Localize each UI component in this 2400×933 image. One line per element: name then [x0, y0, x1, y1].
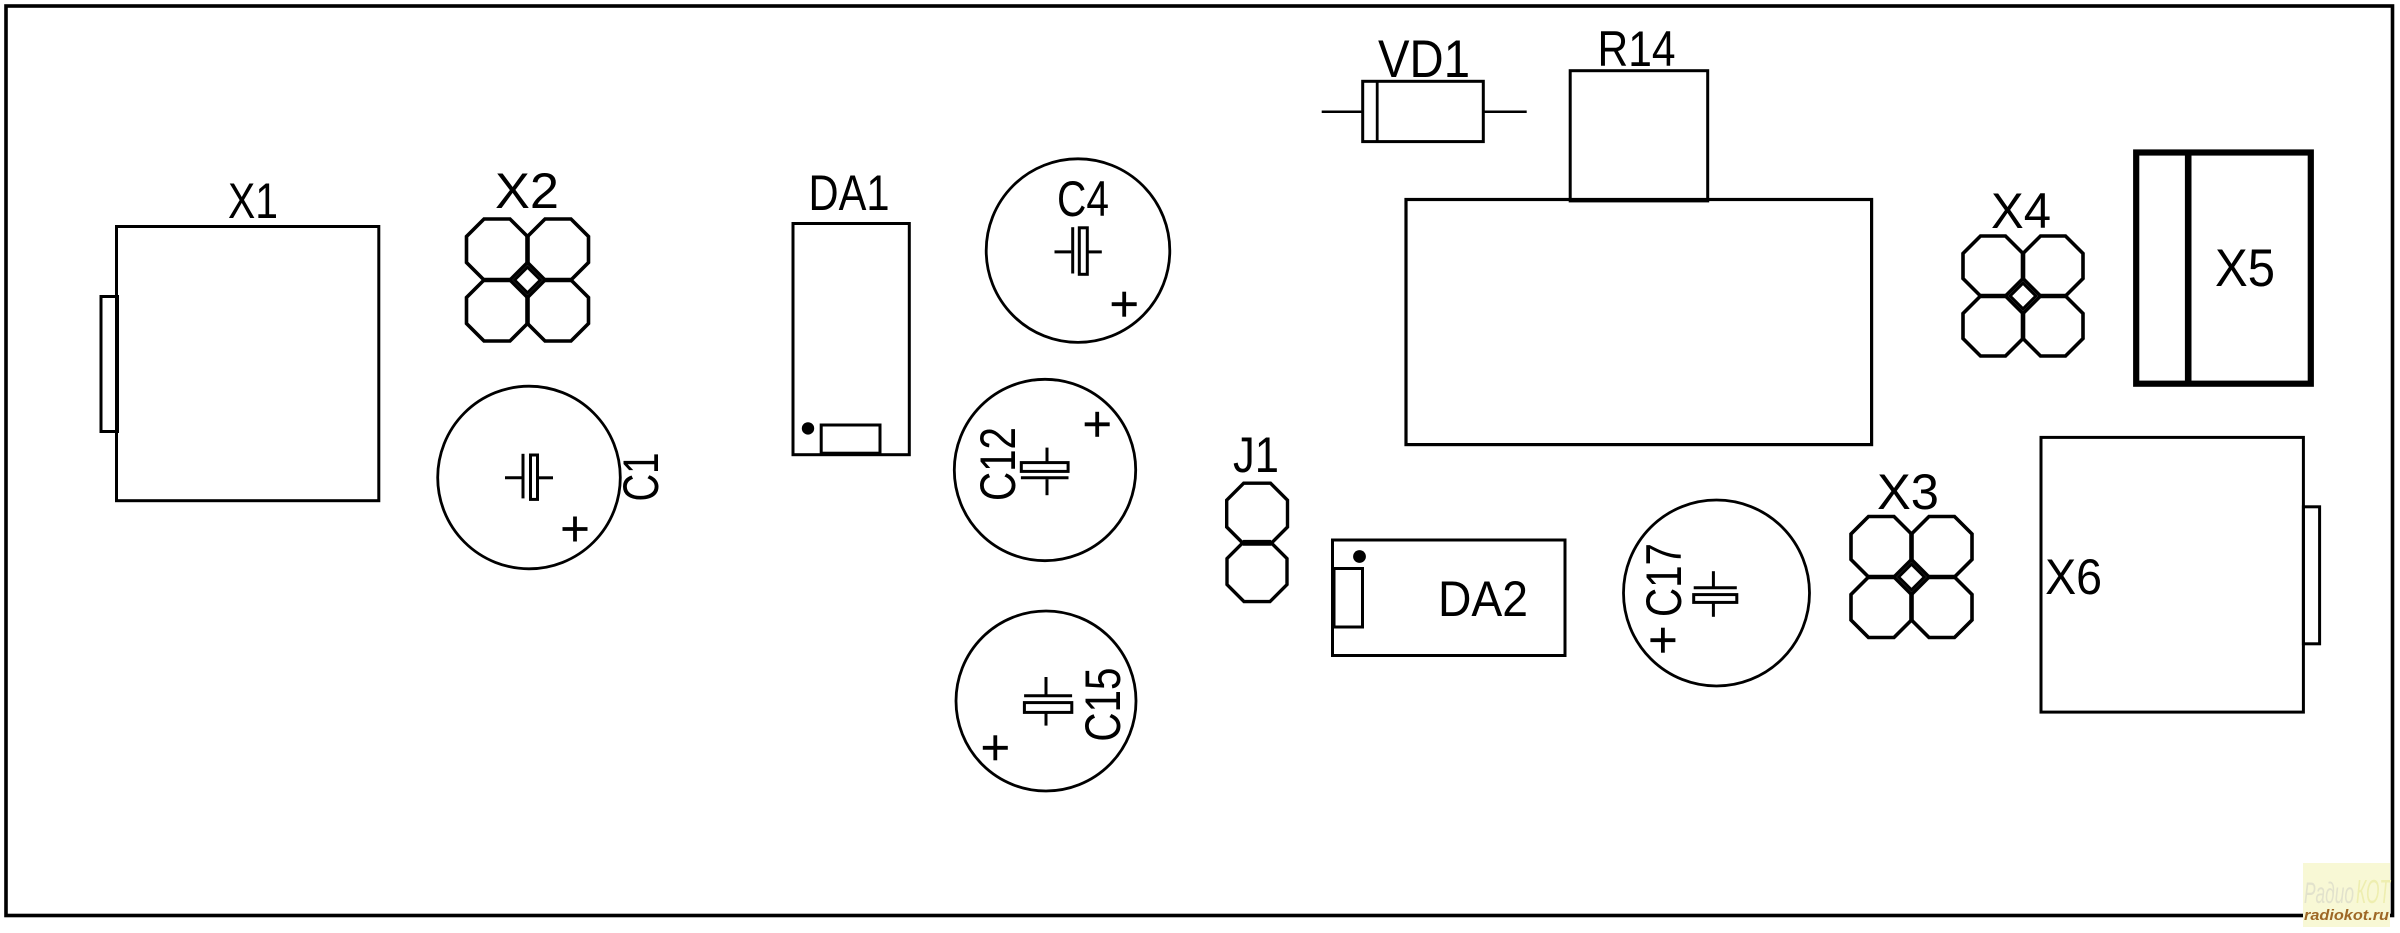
svg-text:C1: C1 [613, 453, 669, 502]
svg-text:VD1: VD1 [1378, 30, 1470, 89]
svg-text:J1: J1 [1233, 427, 1279, 483]
svg-text:X4: X4 [1991, 183, 2051, 239]
relay body [1406, 200, 1872, 445]
capacitor C15 body [956, 611, 1136, 791]
svg-text:DA1: DA1 [809, 165, 890, 221]
capacitor C12 symbol [1021, 448, 1069, 496]
pad cluster X3 shared edges [1869, 534, 1955, 620]
pad cluster X4 [1963, 236, 2083, 356]
connector X1 body [117, 227, 379, 501]
capacitor C1 plus mark [563, 517, 588, 542]
capacitor C4 body [986, 159, 1170, 343]
capacitor C15 symbol [1024, 677, 1072, 726]
pad cluster X4 shared edges [1981, 254, 2066, 339]
capacitor C15 plus mark [983, 735, 1008, 760]
pad cluster X2 center diamond [513, 265, 543, 295]
svg-text:C17: C17 [1636, 543, 1692, 617]
connector X1 side tab [101, 297, 118, 432]
svg-text:X1: X1 [228, 173, 278, 229]
pad cluster X4 center diamond [2008, 281, 2038, 311]
pad cluster X3 center diamond [1897, 562, 1927, 592]
svg-text:C12: C12 [970, 427, 1026, 501]
capacitor C17 symbol [1694, 571, 1737, 617]
capacitor C12 plus mark [1085, 412, 1110, 437]
svg-text:C15: C15 [1075, 668, 1131, 742]
diode VD1 cathode band [1376, 81, 1379, 141]
svg-text:X2: X2 [495, 163, 559, 219]
IC DA2 side notch [1334, 569, 1363, 628]
svg-text:КОТ: КОТ [2356, 873, 2391, 910]
IC DA2 body [1333, 540, 1566, 656]
jumper J1 pads [1227, 483, 1288, 601]
IC DA1 body [793, 224, 909, 455]
resistor R14 body [1570, 71, 1708, 201]
diode VD1 left lead [1322, 110, 1363, 113]
svg-text:X3: X3 [1877, 464, 1939, 520]
connector X5 divider [2185, 153, 2192, 384]
capacitor C4 plus mark [1112, 292, 1137, 317]
IC DA2 pin-1 dot [1353, 550, 1366, 563]
capacitor C17 body [1624, 500, 1810, 686]
capacitor C4 symbol [1055, 227, 1102, 274]
pad cluster X3 [1851, 517, 1972, 638]
capacitor C1 body [438, 386, 621, 569]
pad cluster X2 [467, 219, 589, 341]
IC DA1 bottom notch [821, 425, 880, 453]
watermark background [2303, 863, 2390, 927]
svg-text:X5: X5 [2215, 239, 2275, 298]
IC DA1 pin-1 dot [802, 422, 814, 434]
capacitor C17 plus mark [1650, 628, 1675, 653]
connector X6 body [2041, 437, 2303, 712]
capacitor C1 symbol [505, 454, 553, 500]
connector X6 side tab [2303, 507, 2319, 644]
diode VD1 right lead [1483, 110, 1526, 113]
connector X5 body [2136, 153, 2311, 384]
svg-text:Радио: Радио [2304, 877, 2354, 910]
diode VD1 body [1363, 81, 1484, 141]
svg-text:C4: C4 [1057, 171, 1109, 227]
svg-text:X6: X6 [2045, 549, 2102, 605]
svg-text:R14: R14 [1598, 21, 1676, 77]
svg-text:radiokot.ru: radiokot.ru [2304, 908, 2389, 924]
pad cluster X2 shared edges [484, 237, 571, 324]
capacitor C12 body [954, 379, 1135, 560]
svg-text:DA2: DA2 [1438, 571, 1528, 627]
